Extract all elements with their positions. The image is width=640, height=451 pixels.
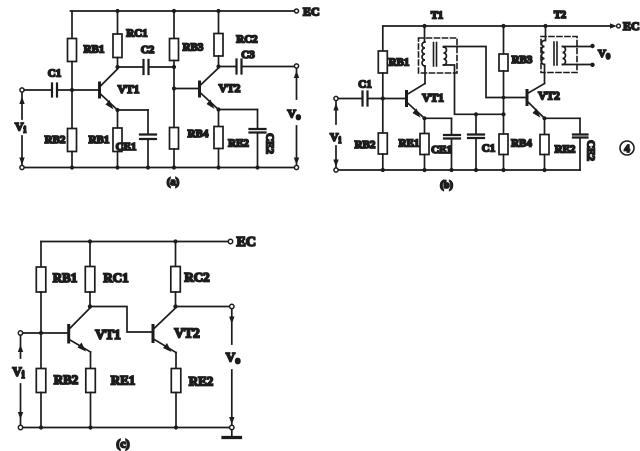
svg-text:RB4: RB4 [511,138,532,150]
node RB4 bottom (b) [501,168,505,172]
capacitor C1 (a) [52,84,57,97]
node C1 bottom (b) [474,168,478,172]
node Vi marker (a) [21,93,23,166]
resistor RB2 (a) [71,90,73,129]
wire emitter to CE2 (b) [545,117,581,119]
transformer T1 primary winding [424,26,426,42]
node RE1 bottom (c) [88,425,92,429]
capacitor CE2 (b) [579,118,581,134]
node RC1 top rail junction [115,9,119,13]
wire input to C1 [338,98,362,100]
node CE1 bottom (b) [449,168,453,172]
capacitor C2 (a) [144,60,149,74]
node RC2 top (c) [173,239,177,243]
svg-text:RB1: RB1 [389,57,410,69]
transistor VT1 (a) [98,83,101,97]
wire input to VT1 base [23,332,68,334]
capacitor CE1 (b) [451,118,453,135]
resistor RB3 (b) [503,26,505,54]
node VT2 collector junction (c) [173,304,177,308]
svg-text:RC1: RC1 [103,270,128,285]
node RB3 base wire crossing [502,96,506,100]
wire bottom rail (a) [22,167,295,169]
terminal EC (b) [610,23,617,28]
node RC2 top rail junction [216,9,220,13]
wire top supply rail (a) [71,10,295,12]
transistor VT2 (a) [198,82,201,96]
transistor VT2 (b) [526,91,529,105]
transformer T1 core [434,43,437,67]
node T2 primary top [543,24,547,28]
svg-text:EC: EC [303,5,320,19]
node VT1 emitter junction (b) [422,116,426,120]
node RE2 bottom [216,165,220,169]
resistor RE2 (b) [544,118,546,134]
svg-text:C3: C3 [241,49,255,61]
svg-text:RE1: RE1 [111,373,136,388]
transformer T2 primary winding [545,26,547,41]
wire top supply rail (c) [41,241,229,243]
ground [230,425,234,429]
svg-text:RC1: RC1 [126,28,147,40]
wire emitter to CE1 (b) [425,117,452,119]
resistor RC1 (c) [89,242,91,267]
capacitor C1 bypass (b) [475,114,477,134]
wire C2 to RB3 node [149,66,175,68]
transistor VT2 (c) [152,326,155,342]
terminal output Vo top (a) [294,64,298,68]
svg-text:T1: T1 [431,11,443,22]
svg-text:RE2: RE2 [555,144,576,156]
node RB3 top rail junction [172,9,176,13]
node VT2 base junction [172,86,176,90]
terminal EC (c) [228,239,232,243]
node Vo marker (a) [296,69,298,166]
svg-text:C1: C1 [482,143,495,155]
svg-text:EC: EC [623,19,640,33]
wire top supply rail (b) [384,25,613,27]
node RC1 top (c) [88,239,92,243]
svg-text:RB1: RB1 [89,134,110,146]
node RB3 bottom junction [172,65,176,69]
node VT1 collector junction (c) [88,304,92,308]
node RB2 bottom (c) [39,425,43,429]
svg-text:(a): (a) [167,177,180,188]
svg-text:RE1: RE1 [399,138,420,150]
capacitor CE2 (a) [257,110,259,130]
svg-text:C1: C1 [358,79,371,91]
wire collector to C2 [118,66,144,68]
svg-text:RB3: RB3 [512,54,533,66]
svg-text:VT2: VT2 [219,83,241,95]
wire C3 to output [242,66,295,68]
node base divider junction (b) [381,96,385,100]
node VT2 emitter junction [216,107,220,111]
transformer T2 dashed box [541,37,577,73]
svg-text:RB1: RB1 [84,44,105,56]
svg-text:C1: C1 [48,68,61,80]
svg-text:VT2: VT2 [538,91,560,103]
wire base VT2 [174,88,199,90]
svg-text:VT1: VT1 [118,84,140,96]
svg-text:RB3: RB3 [183,42,204,54]
transistor VT1 (c) [67,326,70,343]
node T1 primary top [422,24,426,28]
resistor RB1 (b) [382,26,384,51]
wire T1 secondary bottom to bias node [444,65,504,114]
resistor RE2 (c) [175,353,177,369]
svg-text:RE2: RE2 [228,138,249,150]
capacitor C3 (a) [237,60,242,74]
transformer T2 core [554,42,557,65]
terminal EC (a) [295,9,299,13]
wire input to C1 [24,89,52,91]
terminal Vo top (c) [230,304,234,308]
svg-text:RE2: RE2 [189,374,214,389]
svg-text:EC: EC [237,235,256,250]
svg-text:T2: T2 [554,10,566,21]
node VT2 emitter junction (b) [542,116,546,120]
terminal input Vi (c) [18,331,22,335]
svg-text:C2: C2 [141,44,155,56]
terminal input Vi (a) [20,88,24,92]
terminal input bottom (b) [334,168,338,172]
svg-text:RB2: RB2 [54,372,79,387]
resistor RB1 (c) [40,242,42,268]
transformer T1 secondary winding [444,47,447,65]
resistor RE2 (a) [218,110,220,127]
svg-text:RB1: RB1 [53,270,78,285]
terminal output bottom (a) [294,165,298,169]
svg-text:CE2: CE2 [585,140,597,161]
svg-text:RB2: RB2 [45,134,66,146]
svg-text:RC2: RC2 [236,34,258,46]
node RB4 top junction [501,112,505,116]
wire interstage VT1 collector to VT2 base [90,307,153,333]
resistor RC2 (c) [175,242,177,267]
terminal input bottom (a) [20,165,24,169]
resistor RE1 (a) labelled RB1 [117,110,119,128]
resistor RB1 (a) [71,11,73,39]
resistor RC1 (a) [117,11,119,34]
wire collector to C3 [219,66,237,68]
node VT1 emitter junction [115,108,119,112]
node RB1 RB2 divider junction (c) [39,331,43,335]
transformer T1 dashed box [419,38,458,73]
resistor RB4 (b) [503,114,505,134]
node CE1 bottom [146,165,150,169]
wire C1 to VT1 base [57,89,98,91]
node RE1 bottom [115,165,119,169]
node VT1 collector junction [115,65,119,69]
transformer T2 secondary winding [563,47,566,65]
node RB4 bottom [172,165,176,169]
terminal input Vi (b) [334,96,338,100]
resistor RC2 (a) [218,11,220,34]
node C1 bypass top (b) [474,112,478,116]
node RB2 bottom [70,165,74,169]
svg-text:4: 4 [624,143,630,155]
wire T1 secondary top to VT2 base [444,47,528,98]
node VT2 collector junction [216,64,220,68]
node RE2 bottom (b) [542,168,546,172]
node RB3 top [501,24,505,28]
svg-text:VT1: VT1 [95,327,121,342]
wire C1 to VT1 base [368,98,407,100]
svg-text:VT1: VT1 [422,93,444,105]
wire collector to output (c) [176,306,230,308]
resistor RB2 (b) [382,99,384,134]
terminal input bottom (c) [18,425,22,429]
capacitor CE1 (a) [147,110,149,135]
resistor RB4 (a) [173,89,175,128]
wire T2 secondary to output [563,47,593,65]
node RB2 bottom (b) [381,168,385,172]
svg-text:RB2: RB2 [355,139,376,151]
resistor RE1 (b) [424,118,426,133]
svg-text:RC2: RC2 [184,270,209,285]
svg-text:(c): (c) [116,437,129,451]
svg-text:(b): (b) [440,180,453,191]
node Vi marker (c) [20,335,22,425]
node CE2 bottom [255,165,259,169]
node Vo marker (c) [231,309,233,425]
node RE1 bottom (b) [422,168,426,172]
terminal Vo bottom (b) [590,63,594,67]
svg-text:CE1: CE1 [431,144,452,156]
resistor RB3 (a) [173,11,175,39]
node base divider junction VT1 [70,88,74,92]
node Vi marker (b) [335,101,337,168]
svg-text:VT2: VT2 [174,326,200,341]
wire emitter to CE2 [219,109,258,111]
resistor RE1 (c) [90,352,92,369]
node RE2 bottom (c) [174,425,178,429]
svg-text:CE2: CE2 [264,133,276,154]
terminal Vo top (b) [590,44,594,48]
svg-text:RB4: RB4 [188,128,209,140]
resistor RB2 (c) [36,369,46,393]
svg-text:CE1: CE1 [116,141,137,153]
capacitor C1 input (b) [363,92,368,106]
wire bottom rail (c) [21,427,230,429]
wire emitter to CE1 [118,109,149,111]
label circled 4 [620,141,634,155]
wire bottom rail (b) [336,169,580,171]
transistor VT1 (b) [405,92,408,106]
